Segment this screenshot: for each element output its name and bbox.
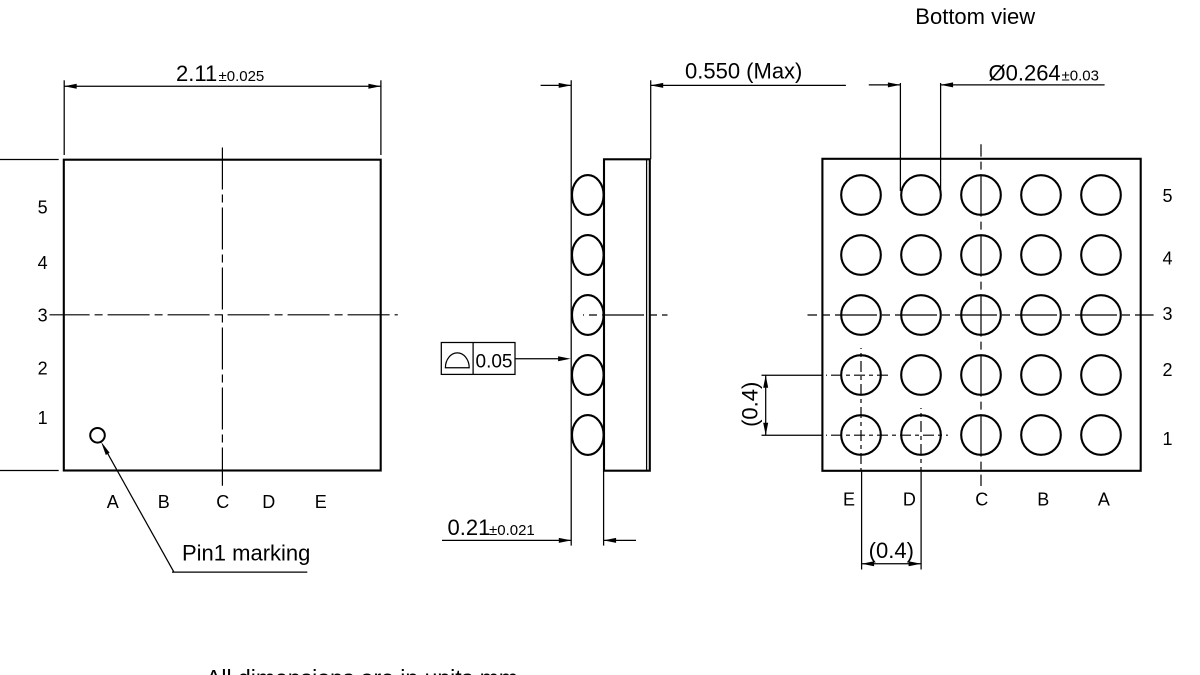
bottom view column labels E D C B A (843, 490, 1110, 510)
side view horizontal centerline (583, 314, 668, 316)
svg-text:D: D (262, 492, 275, 512)
svg-text:B: B (1037, 490, 1049, 510)
svg-text:0.550 (Max): 0.550 (Max) (685, 59, 802, 84)
ball D3 (901, 295, 941, 335)
svg-text:(0.4): (0.4) (738, 382, 763, 427)
leader from feature control frame to seating plane (515, 356, 571, 361)
svg-text:0.05: 0.05 (476, 351, 513, 372)
ball B4 (1021, 235, 1061, 275)
svg-text:1: 1 (1162, 429, 1172, 449)
svg-text:Ø0.264: Ø0.264 (989, 61, 1061, 86)
svg-text:Bottom view: Bottom view (915, 4, 1035, 29)
svg-text:B: B (158, 492, 170, 512)
top view package body outline (64, 160, 381, 471)
ball C3 (961, 295, 1001, 335)
title Bottom view (915, 4, 1035, 29)
label Pin1 marking (182, 541, 310, 566)
svg-text:E: E (843, 490, 855, 510)
svg-text:±0.021: ±0.021 (489, 522, 535, 539)
ball B3 (1021, 295, 1061, 335)
svg-text:D: D (903, 490, 916, 510)
ball C2 (961, 355, 1001, 395)
top view column labels A B C D E (107, 492, 327, 512)
svg-text:3: 3 (38, 306, 48, 326)
top view horizontal centerline row 3 (50, 314, 398, 316)
top view row labels 5 4 3 2 1 (38, 197, 48, 428)
ball A5 (1081, 175, 1121, 215)
ball C5 (961, 175, 1001, 215)
dimension 2.11 +/-0.025 (64, 61, 381, 155)
svg-text:A: A (1098, 490, 1110, 510)
dimension 0.21 +/-0.021 ball height (442, 471, 636, 546)
bottom view row labels 5 4 3 2 1 (1162, 186, 1172, 449)
svg-text:5: 5 (38, 197, 48, 217)
ball A2 (1081, 355, 1121, 395)
feature control frame ball coplanarity 0.05 (441, 343, 515, 375)
note all dimensions in mm (206, 665, 518, 675)
svg-text:2: 2 (38, 358, 48, 378)
ball E4 (841, 235, 881, 275)
ball B1 (1021, 415, 1061, 455)
ball D4 (901, 235, 941, 275)
ball D5 (901, 175, 941, 215)
dimension ball diameter 0.264 (869, 61, 1105, 192)
svg-text:3: 3 (1162, 304, 1172, 324)
side view inner edge line (646, 159, 648, 470)
svg-text:C: C (216, 492, 229, 512)
ball C4 (961, 235, 1001, 275)
ball E1 (841, 415, 881, 455)
dimension (0.4) horizontal ball pitch (862, 472, 922, 570)
column E centerline (860, 348, 862, 471)
wire projection stub bottom-left (0, 470, 59, 472)
row 2 centerline (762, 374, 889, 376)
ball A3 (1081, 295, 1121, 335)
svg-text:4: 4 (1162, 248, 1172, 268)
bottom view vertical centerline column C (980, 144, 982, 486)
row 1 centerline (762, 434, 948, 436)
top view vertical centerline column C (221, 146, 223, 486)
wire projection stub top-left (0, 159, 59, 161)
svg-text:(0.4): (0.4) (869, 538, 914, 563)
side view ball tangent / seating plane line (570, 80, 572, 545)
svg-text:±0.025: ±0.025 (219, 68, 265, 85)
svg-text:4: 4 (38, 253, 48, 273)
ball A1 (1081, 415, 1121, 455)
bottom view package body outline (822, 159, 1140, 471)
svg-text:All dimensions are in units mm: All dimensions are in units mm (206, 665, 518, 675)
svg-text:2: 2 (1162, 360, 1172, 380)
ball B5 (1021, 175, 1061, 215)
ball B2 (1021, 355, 1061, 395)
ball A4 (1081, 235, 1121, 275)
svg-text:E: E (315, 492, 327, 512)
ball E2 (841, 355, 881, 395)
pin1 leader line with arrow (101, 442, 307, 572)
svg-text:Pin1 marking: Pin1 marking (182, 541, 310, 566)
svg-text:1: 1 (38, 408, 48, 428)
svg-text:±0.03: ±0.03 (1062, 68, 1099, 85)
ball D1 (901, 415, 941, 455)
svg-text:0.21: 0.21 (448, 515, 491, 540)
pin A1 marking circle (90, 428, 105, 443)
dimension (0.4) vertical ball pitch (738, 375, 769, 435)
ball C1 (961, 415, 1001, 455)
svg-text:2.11: 2.11 (176, 61, 217, 86)
svg-text:5: 5 (1162, 186, 1172, 206)
column D centerline (920, 408, 922, 471)
side view package body (604, 159, 650, 470)
ball D2 (901, 355, 941, 395)
svg-text:C: C (975, 490, 988, 510)
bottom view horizontal centerline row 3 (808, 314, 1154, 316)
ball E3 (841, 295, 881, 335)
dimension 0.550 (Max) (541, 59, 846, 160)
svg-text:A: A (107, 492, 119, 512)
ball E5 (841, 175, 881, 215)
side view solder balls (ellipses) (572, 175, 604, 455)
